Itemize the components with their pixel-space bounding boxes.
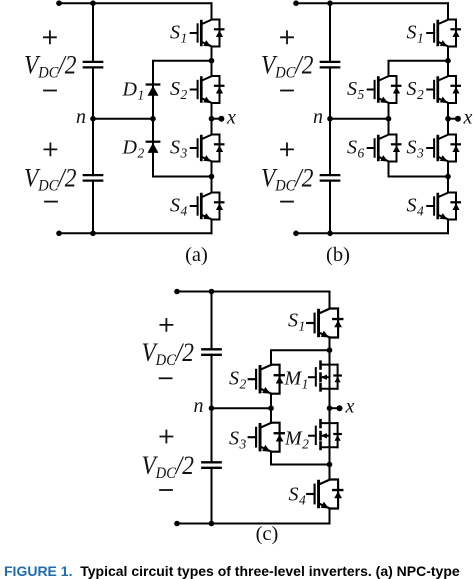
wire clamp lower (a): [153, 119, 212, 177]
wire left bus middle (b): [329, 67, 331, 175]
transistor S4 (b): [427, 193, 460, 220]
node x junction (c): [327, 405, 333, 411]
svg-text:S1: S1: [170, 22, 187, 46]
svg-text:S1: S1: [407, 22, 424, 46]
node clamp upper junction (b): [445, 58, 451, 64]
node n branch junction (c): [268, 405, 274, 411]
node DC- terminal (a): [56, 231, 62, 237]
wire left bus lower (b): [329, 181, 331, 234]
wire top rail (b): [296, 2, 448, 4]
transistor S1 (b): [427, 20, 460, 47]
svg-text:D1: D1: [122, 79, 145, 103]
wire neutral n (c): [212, 407, 272, 409]
svg-text:x: x: [463, 107, 473, 129]
node clamp upper junction (a): [209, 58, 215, 64]
svg-text:M1: M1: [284, 368, 309, 392]
label plus lower (b): [281, 143, 293, 155]
transistor S2 (c): [249, 365, 284, 394]
node clamp lower junction (b): [445, 174, 451, 180]
wire neutral n (b): [330, 118, 389, 120]
wire left bus lower (a): [92, 181, 94, 234]
node n branch junction (a): [150, 116, 156, 122]
transistor S2 (a): [191, 76, 224, 103]
svg-text:n: n: [194, 395, 204, 417]
node top rail bus junction (b): [327, 0, 333, 6]
label minus upper (c): [160, 377, 172, 379]
wire phase leg (a): [211, 3, 213, 233]
capacitor C2 (c): [202, 462, 220, 468]
label minus lower (b): [281, 201, 293, 203]
svg-text:n: n: [313, 106, 323, 128]
svg-text:D2: D2: [122, 137, 145, 161]
node x junction (a): [209, 116, 215, 122]
svg-text:M2: M2: [284, 428, 309, 452]
capacitor C1 (a): [84, 62, 102, 68]
node n bus junction (c): [209, 405, 215, 411]
node DC- terminal (c): [174, 521, 180, 527]
capacitor C1 (c): [202, 349, 220, 355]
node DC- terminal (b): [293, 231, 299, 237]
wire left bus upper (a): [92, 3, 94, 62]
wire bottom rail (c): [177, 523, 330, 525]
wire top rail (c): [177, 291, 330, 293]
wire bottom rail (b): [296, 232, 448, 234]
wire left bus lower (c): [211, 468, 213, 524]
svg-text:VDC/2: VDC/2: [261, 51, 314, 81]
svg-text:S3: S3: [407, 137, 425, 161]
transistor S1 (a): [191, 20, 224, 47]
capacitor C1 (b): [321, 62, 339, 68]
svg-text:S4: S4: [170, 195, 188, 219]
transistor S3 (b): [427, 135, 460, 162]
svg-text:(b): (b): [326, 244, 350, 266]
wire clamp lower (c): [271, 452, 330, 465]
node bottom rail bus junction (a): [90, 231, 96, 237]
node n branch junction (b): [386, 116, 392, 122]
svg-text:(c): (c): [256, 523, 279, 545]
wire phase leg (c): [329, 292, 331, 524]
label minus lower (c): [160, 489, 172, 491]
label plus upper (b): [281, 31, 293, 43]
node DC+ terminal (c): [174, 289, 180, 295]
svg-text:S1: S1: [288, 310, 305, 334]
svg-text:VDC/2: VDC/2: [142, 452, 195, 482]
svg-text:S4: S4: [289, 484, 307, 508]
node x terminal (b): [455, 116, 461, 122]
svg-text:S3: S3: [229, 428, 247, 452]
wire neutral n (a): [93, 118, 153, 120]
wire clamp upper (c): [271, 350, 330, 365]
diode D1: [147, 85, 160, 96]
svg-text:S4: S4: [407, 195, 425, 219]
label minus upper (a): [44, 90, 56, 92]
transistor M2 MOSFET (c): [309, 420, 341, 449]
label minus upper (b): [281, 90, 293, 92]
svg-text:VDC/2: VDC/2: [261, 165, 314, 195]
wire S branch mid (c): [270, 394, 272, 423]
label plus lower (a): [44, 143, 56, 155]
transistor S6 (b): [368, 135, 401, 162]
node x terminal (c): [337, 405, 343, 411]
wire bottom rail (a): [59, 232, 212, 234]
wire clamp lower (b): [389, 162, 449, 177]
wire phase leg (b): [447, 3, 449, 233]
capacitor C2 (a): [84, 175, 102, 181]
svg-text:S5: S5: [347, 78, 365, 102]
svg-text:S3: S3: [170, 137, 188, 161]
node top rail bus junction (c): [209, 289, 215, 295]
svg-text:S6: S6: [347, 137, 365, 161]
transistor S4 (a): [191, 193, 224, 220]
diode D2: [147, 142, 160, 153]
transistor S3 (c): [249, 423, 284, 452]
svg-text:n: n: [76, 106, 86, 128]
wire left bus upper (b): [329, 3, 331, 62]
transistor S5 (b): [368, 76, 401, 103]
capacitor C2 (b): [321, 175, 339, 181]
node B junction (c): [327, 462, 333, 468]
transistor S4 (c): [307, 480, 342, 509]
wire x stub (b): [448, 118, 458, 120]
node DC+ terminal (b): [293, 0, 299, 6]
svg-text:S2: S2: [407, 78, 425, 102]
wire left bus middle (a): [92, 67, 94, 175]
wire clamp upper (a): [153, 61, 212, 119]
wire x stub (a): [212, 118, 222, 120]
transistor S2 (b): [427, 76, 460, 103]
transistor S1 (c): [307, 309, 342, 338]
label plus lower (c): [160, 431, 172, 443]
label minus lower (a): [45, 201, 57, 203]
node bottom rail bus junction (c): [209, 521, 215, 527]
wire left bus middle (c): [211, 355, 213, 463]
transistor M1 MOSFET (c): [309, 362, 341, 391]
node bottom rail bus junction (b): [327, 231, 333, 237]
wire x stub (c): [330, 407, 340, 409]
svg-text:x: x: [345, 396, 355, 418]
svg-text:VDC/2: VDC/2: [24, 51, 77, 81]
wire left bus upper (c): [211, 292, 213, 350]
node top rail bus junction (a): [90, 0, 96, 6]
svg-text:S2: S2: [170, 78, 188, 102]
wire clamp upper (b): [389, 61, 449, 76]
svg-text:S2: S2: [229, 368, 247, 392]
label plus upper (a): [44, 31, 56, 43]
node clamp lower junction (a): [209, 174, 215, 180]
svg-text:VDC/2: VDC/2: [24, 165, 77, 195]
svg-text:VDC/2: VDC/2: [142, 339, 195, 369]
svg-text:x: x: [226, 107, 236, 129]
node x terminal (a): [218, 116, 224, 122]
node A junction (c): [327, 347, 333, 353]
svg-text:(a): (a): [185, 244, 208, 266]
node n bus junction (a): [90, 116, 96, 122]
node DC+ terminal (a): [56, 0, 62, 6]
node x junction (b): [445, 116, 451, 122]
label plus upper (c): [160, 319, 172, 331]
wire top rail (a): [59, 2, 212, 4]
transistor S3 (a): [191, 135, 224, 162]
wire mid branch (b): [388, 103, 390, 135]
node n bus junction (b): [327, 116, 333, 122]
